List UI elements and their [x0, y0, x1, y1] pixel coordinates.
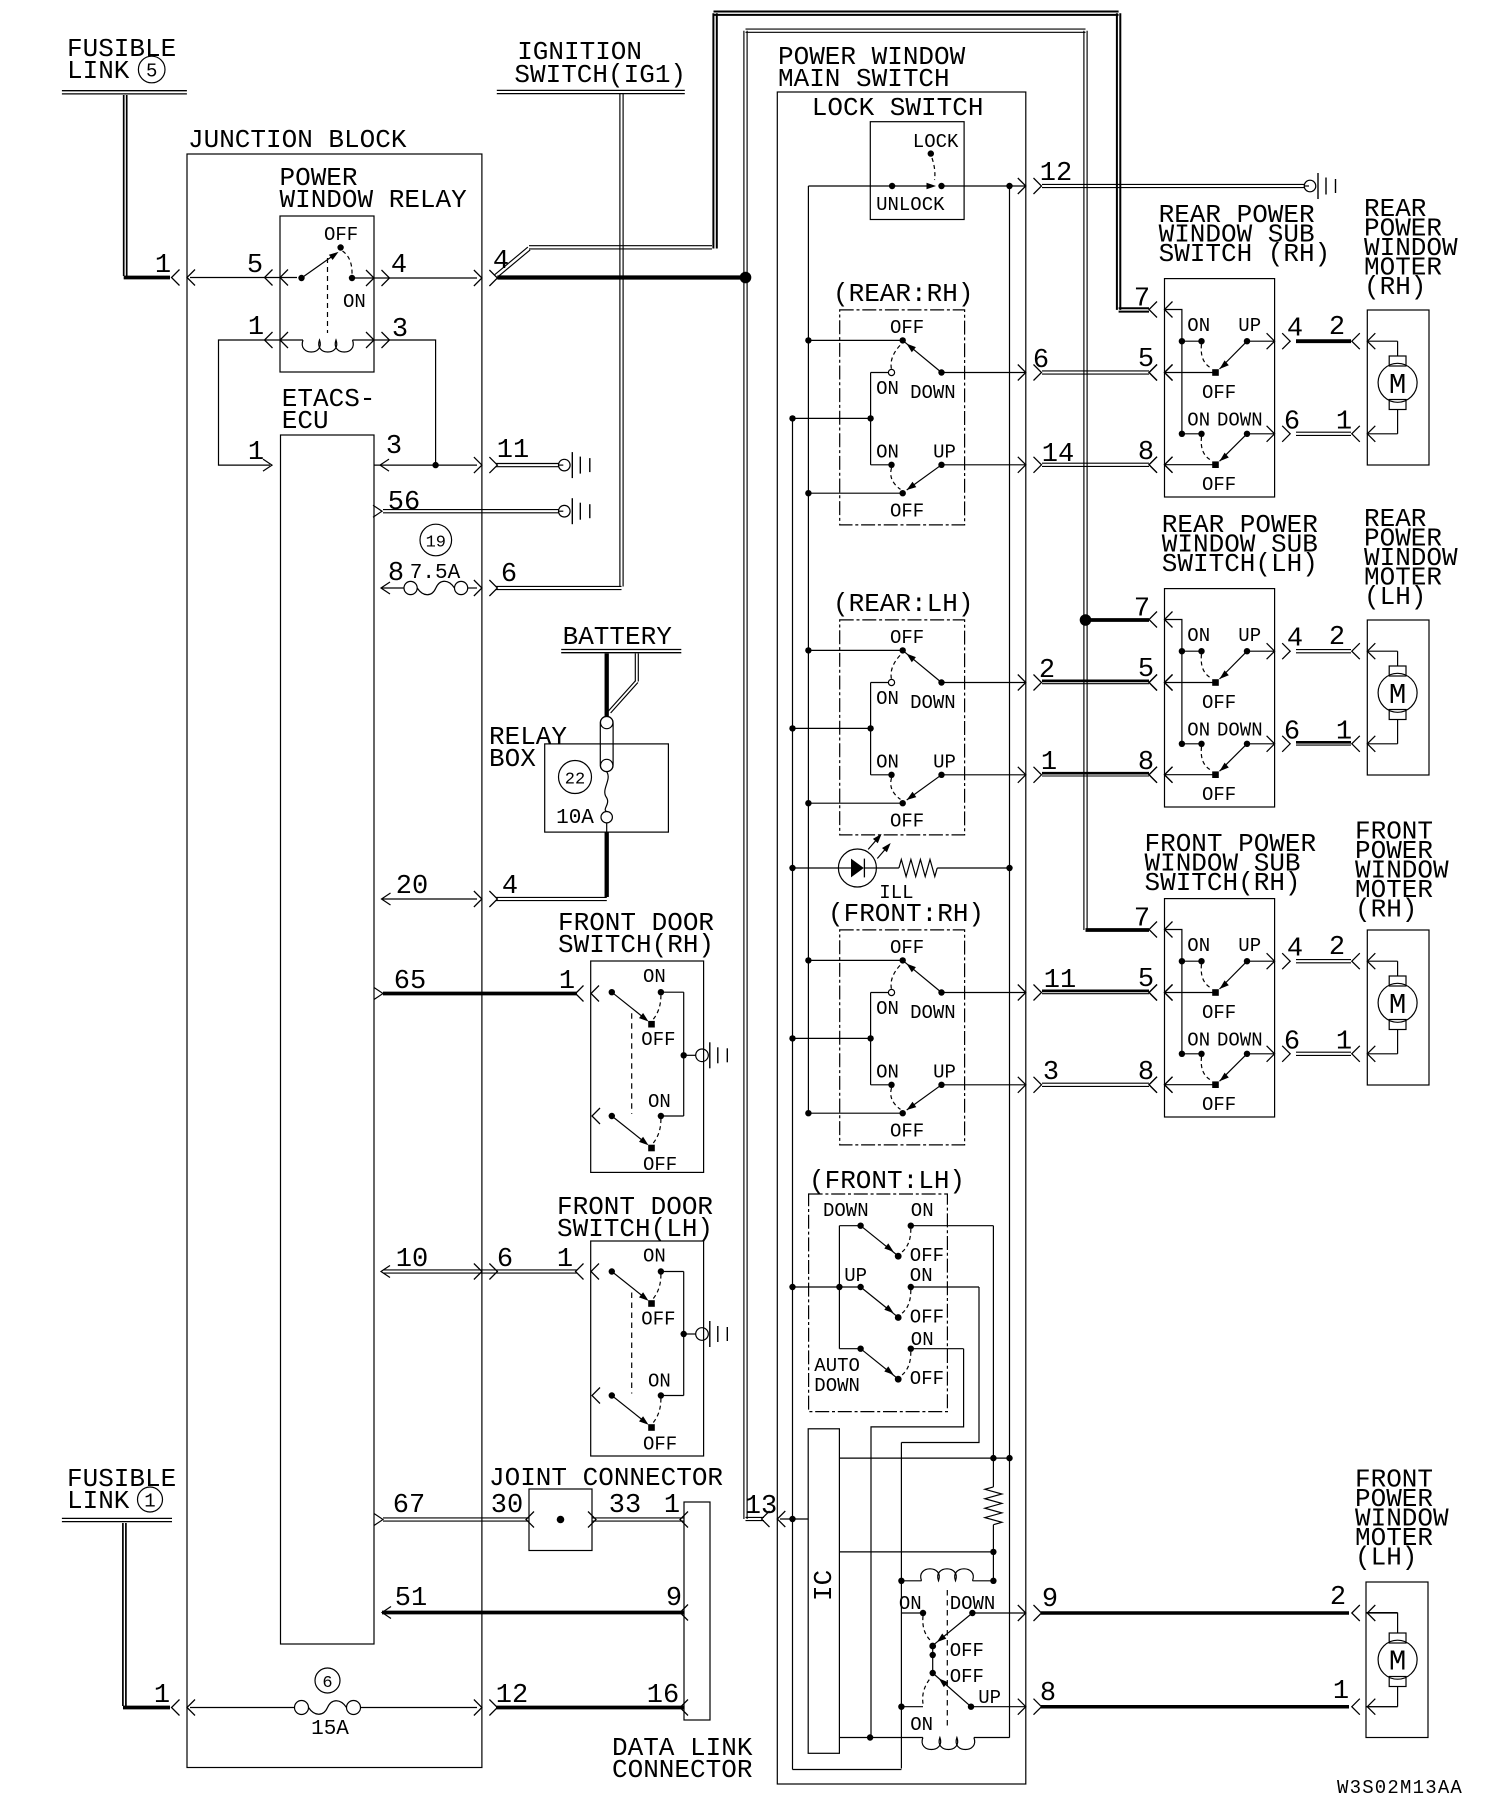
wire fusible link 5 drop [124, 95, 170, 278]
svg-text:ON: ON [1187, 625, 1210, 647]
fusible link 5 terminal bar [62, 91, 187, 94]
wire JB pin12 to DLC pin16 [496, 1681, 688, 1716]
relay K1 contact [298, 224, 366, 333]
wire sub FRT pin4 to motor pin2 [1296, 960, 1351, 963]
svg-text:ON: ON [876, 1061, 899, 1083]
svg-text:DOWN: DOWN [1217, 1029, 1263, 1051]
svg-text:(REAR:LH): (REAR:LH) [833, 589, 973, 619]
svg-text:DOWN: DOWN [910, 1002, 956, 1024]
node pin2 [1018, 656, 1055, 691]
svg-text:1: 1 [154, 1681, 170, 1711]
wire front-lh down contact to resistor [992, 1226, 994, 1458]
svg-text:OFF: OFF [641, 1029, 675, 1051]
svg-text:LOCK SWITCH: LOCK SWITCH [812, 93, 984, 123]
svg-text:UP: UP [933, 1061, 956, 1083]
svg-text:15A: 15A [311, 1718, 349, 1741]
svg-text:DOWN: DOWN [1217, 719, 1263, 741]
svg-text:DOWN: DOWN [1217, 409, 1263, 431]
svg-text:67: 67 [393, 1491, 425, 1521]
svg-text:UP: UP [933, 441, 956, 463]
wire ETACS pin51 to DLC pin9 [382, 1584, 688, 1621]
wire front-lh auto contact down [871, 1349, 964, 1738]
wire ETACS pin3 to JB pin11 [374, 432, 529, 473]
battery terminal bar [561, 650, 681, 653]
svg-text:ECU: ECU [282, 406, 329, 436]
svg-text:ON: ON [648, 1091, 671, 1113]
svg-text:ON: ON [648, 1371, 671, 1393]
rail C lock rail [1009, 186, 1011, 1738]
relay box [545, 744, 669, 832]
svg-text:ON: ON [911, 1200, 934, 1222]
node pin1 main [1018, 748, 1057, 783]
svg-text:UP: UP [933, 751, 956, 773]
wire sub FRT pin6 to motor pin1 [1296, 1052, 1351, 1055]
wire fusible link 1 drop [123, 1523, 170, 1708]
svg-text:DOWN: DOWN [814, 1375, 860, 1397]
wire ETACS pin20 row [382, 872, 519, 907]
power window main switch box [777, 92, 1026, 1784]
wire pin2 to sub pin5 LH [1042, 655, 1173, 691]
svg-text:OFF: OFF [643, 1434, 677, 1456]
svg-text:1: 1 [559, 967, 575, 997]
wire relay coil pin1 to ETACS pin1 [219, 340, 286, 471]
fuse 6 15A [190, 1668, 497, 1741]
svg-text:ON: ON [911, 1329, 934, 1351]
front door switch RH label [558, 908, 714, 960]
rear power window sub switch LH label [1162, 510, 1318, 579]
fusible link symbol battery [600, 716, 613, 771]
wire lock switch row to pin12 [808, 183, 1025, 189]
svg-text:22: 22 [565, 771, 585, 790]
joint connector label [489, 1463, 723, 1493]
svg-text:6: 6 [1284, 1027, 1300, 1057]
front door switch LH box [591, 1241, 704, 1456]
svg-text:M: M [1389, 1646, 1406, 1679]
ground G2 pin56 [558, 498, 590, 524]
svg-text:M: M [1389, 989, 1406, 1022]
rear power window sub switch RH [1134, 279, 1375, 497]
front power window sub switch RH label [1145, 829, 1317, 898]
svg-text:MAIN SWITCH: MAIN SWITCH [778, 64, 950, 94]
svg-text:30: 30 [491, 1491, 523, 1521]
svg-text:OFF: OFF [324, 224, 358, 246]
junction node A [740, 272, 750, 282]
svg-text:56: 56 [388, 488, 420, 518]
svg-text:UP: UP [844, 1265, 867, 1287]
wire coil rail down [898, 1443, 904, 1769]
svg-text:1: 1 [155, 251, 171, 281]
svg-text:7.5A: 7.5A [410, 562, 461, 585]
svg-text:UP: UP [1238, 625, 1261, 647]
svg-text:ON: ON [1187, 719, 1210, 741]
wire ETACS pin10 to front door switch LH [381, 1245, 599, 1280]
svg-text:DOWN: DOWN [910, 692, 956, 714]
reversing switch up pole [899, 1593, 995, 1676]
ground G3 front door RH [696, 1042, 728, 1068]
svg-text:CONNECTOR: CONNECTOR [612, 1755, 752, 1785]
front power window moter RH label [1355, 817, 1449, 925]
svg-text:OFF: OFF [890, 317, 924, 339]
svg-text:6: 6 [1284, 407, 1300, 437]
wire pin9 row [972, 1583, 1397, 1621]
svg-text:ON: ON [899, 1593, 922, 1615]
node pin1 junction block left [155, 251, 195, 286]
ground G1 pin11 [558, 452, 590, 478]
svg-text:BATTERY: BATTERY [563, 622, 673, 652]
ignition switch terminal bar [497, 90, 685, 93]
svg-text:1: 1 [557, 1245, 573, 1275]
wire pin1 to sub pin8 LH [1042, 748, 1173, 783]
svg-text:OFF: OFF [890, 627, 924, 649]
relay K1 box [280, 216, 374, 372]
motor M3 front RH [1367, 930, 1429, 1085]
joint connector box [529, 1489, 592, 1551]
svg-text:4: 4 [493, 247, 509, 277]
wire pin6 to sub pin5 [1042, 345, 1173, 381]
svg-text:OFF: OFF [890, 937, 924, 959]
wire junction A up and right run [744, 29, 1087, 617]
rail B supply rail [807, 186, 809, 1113]
svg-text:ON: ON [910, 1265, 933, 1287]
svg-text:ON: ON [643, 966, 666, 988]
svg-text:1: 1 [248, 313, 264, 343]
fusible link 5 label [67, 34, 176, 86]
svg-text:WINDOW RELAY: WINDOW RELAY [280, 185, 468, 215]
wire ETACS pin56 to ground [373, 488, 559, 518]
drawing number [1337, 1777, 1463, 1799]
svg-text:8: 8 [1138, 748, 1154, 778]
svg-text:(LH): (LH) [1355, 1543, 1417, 1573]
svg-text:8: 8 [1040, 1679, 1056, 1709]
svg-text:OFF: OFF [910, 1368, 944, 1390]
svg-text:10: 10 [396, 1245, 428, 1275]
wire sub RH pin4 to motor pin2 [1296, 339, 1351, 343]
svg-text:OFF: OFF [1202, 474, 1236, 496]
svg-text:SWITCH(LH): SWITCH(LH) [557, 1214, 713, 1244]
power window main switch label [778, 42, 966, 94]
svg-text:ON: ON [910, 1714, 933, 1736]
svg-text:ON: ON [876, 441, 899, 463]
svg-text:W3S02M13AA: W3S02M13AA [1337, 1777, 1463, 1799]
wire pin8 row [971, 1677, 1398, 1715]
svg-text:51: 51 [395, 1584, 427, 1614]
svg-text:6: 6 [322, 1674, 332, 1693]
svg-text:8: 8 [1138, 1058, 1154, 1088]
wire junction B down to front RH sub pin7 [1084, 623, 1149, 930]
illumination LED ILL [789, 834, 1012, 904]
svg-text:7: 7 [1134, 595, 1150, 625]
svg-text:SWITCH(RH): SWITCH(RH) [558, 930, 714, 960]
svg-text:OFF: OFF [643, 1154, 677, 1176]
motor M4 front LH box [1366, 1582, 1428, 1738]
svg-text:2: 2 [1329, 933, 1345, 963]
svg-text:SWITCH (RH): SWITCH (RH) [1159, 239, 1331, 269]
lock switch label [812, 93, 984, 123]
svg-text:DOWN: DOWN [910, 382, 956, 404]
wire ignition drop [620, 94, 623, 587]
svg-text:2: 2 [1329, 313, 1345, 343]
svg-text:OFF: OFF [950, 1666, 984, 1688]
wire ETACS pin67 to joint connector [374, 1491, 534, 1528]
svg-text:33: 33 [609, 1491, 641, 1521]
svg-text:ON: ON [1187, 935, 1210, 957]
svg-text:4: 4 [1287, 625, 1303, 655]
svg-text:BOX: BOX [489, 744, 536, 774]
wire sub RH pin6 to motor pin1 [1296, 432, 1351, 435]
svg-text:JOINT CONNECTOR: JOINT CONNECTOR [489, 1463, 723, 1493]
wire fuse19 to ignition drop [496, 586, 622, 589]
wire relay pin4 to JB edge [352, 251, 497, 286]
node pin12 [1018, 159, 1072, 194]
relay coil down L2 [839, 1734, 1009, 1749]
svg-text:OFF: OFF [1202, 1002, 1236, 1024]
svg-text:4: 4 [1287, 935, 1303, 965]
svg-text:OFF: OFF [950, 1640, 984, 1662]
wire sub LH pin4 to motor pin2 [1296, 650, 1351, 653]
svg-text:OFF: OFF [890, 1120, 924, 1142]
svg-text:ON: ON [1187, 409, 1210, 431]
svg-text:OFF: OFF [641, 1309, 675, 1331]
ETACS-ECU box [281, 435, 375, 1644]
svg-text:10A: 10A [556, 807, 594, 830]
svg-text:11: 11 [497, 436, 529, 466]
fuse 19 7.5A [381, 524, 517, 596]
reversing switch down pole [901, 1666, 1001, 1736]
lock switch contacts [876, 131, 959, 216]
svg-text:OFF: OFF [890, 810, 924, 832]
lock switch box [870, 122, 964, 220]
node pin14 [1018, 440, 1074, 473]
node pin11 [1018, 966, 1076, 1001]
wire IC row 1552 [839, 1549, 996, 1555]
svg-text:ILL: ILL [879, 882, 913, 904]
svg-text:4: 4 [502, 872, 518, 902]
front power window sub switch RH [1134, 899, 1375, 1117]
relay K1 coil [248, 313, 408, 352]
svg-text:1: 1 [1336, 407, 1352, 437]
svg-text:1: 1 [248, 438, 264, 468]
svg-text:AUTO: AUTO [814, 1355, 860, 1377]
wire junction B to rear LH sub pin7 [1089, 618, 1149, 622]
wire ETACS pin65 to front door switch RH [374, 967, 599, 1002]
svg-text:1: 1 [664, 1491, 680, 1521]
svg-text:6: 6 [1033, 346, 1049, 376]
svg-text:1: 1 [1333, 1677, 1349, 1707]
junction block box [187, 154, 482, 1768]
svg-text:ON: ON [876, 688, 899, 710]
svg-text:DOWN: DOWN [823, 1200, 869, 1222]
svg-text:LINK: LINK [67, 56, 130, 86]
ignition switch label [514, 37, 686, 90]
svg-text:OFF: OFF [1202, 382, 1236, 404]
wire relay coil pin3 down [369, 340, 439, 468]
svg-text:UP: UP [1238, 315, 1261, 337]
svg-text:6: 6 [497, 1245, 513, 1275]
wire JB left to relay pin5 [190, 251, 297, 286]
svg-text:(FRONT:LH): (FRONT:LH) [809, 1166, 965, 1196]
wire pin13 row [745, 1492, 808, 1527]
svg-text:OFF: OFF [910, 1306, 944, 1328]
svg-text:9: 9 [666, 1584, 682, 1614]
node pin6 [1018, 346, 1049, 381]
wire JB pin4 bold to junction [497, 275, 745, 279]
resistor R1 [985, 1458, 1002, 1581]
fusible link 1 terminal bar [62, 1518, 172, 1521]
svg-text:65: 65 [394, 967, 426, 997]
wire battery second drop [608, 654, 638, 714]
wire pin11 to sub pin5 FRT [1042, 965, 1173, 1001]
svg-text:(RH): (RH) [1364, 272, 1426, 302]
svg-text:8: 8 [1138, 438, 1154, 468]
power window relay label [280, 163, 468, 215]
main switch section FRONT LH [789, 1166, 993, 1412]
svg-text:OFF: OFF [890, 500, 924, 522]
svg-text:SWITCH(RH): SWITCH(RH) [1145, 868, 1301, 898]
svg-text:UNLOCK: UNLOCK [876, 194, 945, 216]
junction block label [188, 125, 407, 155]
svg-text:M: M [1389, 369, 1406, 402]
svg-text:(REAR:RH): (REAR:RH) [833, 279, 973, 309]
wire relay box out [496, 823, 607, 901]
svg-text:2: 2 [1330, 1583, 1346, 1613]
fuse 22 10A [556, 761, 612, 831]
junction node B [1080, 615, 1090, 625]
node pin3 [1018, 1058, 1059, 1093]
rear power window moter RH label [1364, 194, 1458, 302]
ETACS-ECU label [282, 384, 376, 436]
svg-text:3: 3 [386, 432, 402, 462]
front door switch LH contacts [592, 1246, 696, 1456]
wire sub LH pin6 to motor pin1 [1296, 742, 1351, 745]
main switch section REAR RH [789, 279, 1026, 525]
relay coil up L1 [898, 1569, 996, 1584]
main switch section FRONT RH [789, 899, 1026, 1145]
fusible link 1 label [67, 1464, 176, 1516]
motor M2 rear LH [1367, 620, 1429, 775]
rear power window sub switch LH [1134, 589, 1375, 807]
rail A ground rail [793, 418, 902, 1769]
motor M1 rear RH [1367, 310, 1429, 465]
svg-text:LOCK: LOCK [913, 131, 959, 153]
svg-text:ON: ON [876, 751, 899, 773]
svg-text:20: 20 [396, 872, 428, 902]
svg-text:9: 9 [1042, 1585, 1058, 1615]
svg-text:UP: UP [978, 1687, 1001, 1709]
wire junction A down to pin13 [744, 280, 764, 1521]
wire front-lh up contact down [901, 1287, 979, 1443]
svg-text:(RH): (RH) [1355, 895, 1417, 925]
wire pin12 to ground [1042, 184, 1304, 187]
svg-text:IC: IC [809, 1570, 839, 1601]
svg-text:ON: ON [876, 998, 899, 1020]
front door switch LH label [557, 1192, 713, 1244]
wire pin14 to sub pin8 [1042, 438, 1173, 473]
data link connector label [612, 1733, 753, 1785]
svg-text:7: 7 [1134, 905, 1150, 935]
data link connector box [684, 1502, 710, 1720]
svg-text:ON: ON [343, 291, 366, 313]
svg-text:SWITCH(IG1): SWITCH(IG1) [514, 60, 686, 90]
svg-text:M: M [1389, 679, 1406, 712]
svg-text:(LH): (LH) [1364, 582, 1426, 612]
svg-text:OFF: OFF [1202, 784, 1236, 806]
svg-text:OFF: OFF [1202, 1094, 1236, 1116]
rear power window sub switch RH label [1159, 200, 1331, 269]
node pin1 JB bottom [154, 1681, 195, 1716]
relay box label [489, 722, 567, 774]
svg-text:16: 16 [647, 1681, 679, 1711]
svg-text:LINK: LINK [67, 1486, 130, 1516]
wire IC row 1458 [839, 1455, 1012, 1461]
svg-text:7: 7 [1134, 285, 1150, 315]
IC box [808, 1429, 839, 1754]
ground G5 pin12 [1304, 173, 1336, 199]
svg-text:5: 5 [247, 251, 263, 281]
wire JB pin4 diagonal feeder [493, 246, 712, 278]
svg-text:OFF: OFF [910, 1245, 944, 1267]
svg-text:UP: UP [1238, 935, 1261, 957]
svg-text:ON: ON [643, 1246, 666, 1268]
front door switch RH box [591, 961, 704, 1172]
front door switch RH contacts [592, 966, 696, 1176]
wire pin3 to sub pin8 FRT [1042, 1058, 1173, 1093]
svg-text:ON: ON [1187, 1029, 1210, 1051]
wire feeder top run to rear RH sub [713, 12, 1149, 312]
svg-text:ON: ON [876, 378, 899, 400]
main switch section REAR LH [789, 589, 1026, 835]
svg-text:8: 8 [388, 559, 404, 589]
wire battery drop bold [605, 654, 609, 717]
svg-text:1: 1 [1336, 1027, 1352, 1057]
ground G4 front door LH [696, 1321, 728, 1347]
rear power window moter LH label [1364, 504, 1458, 612]
svg-text:SWITCH(LH): SWITCH(LH) [1162, 549, 1318, 579]
svg-text:2: 2 [1329, 623, 1345, 653]
wire pin11 to ground [496, 464, 559, 467]
svg-text:14: 14 [1042, 440, 1074, 470]
link line reversing switch [946, 1590, 948, 1729]
svg-text:13: 13 [745, 1492, 777, 1522]
svg-text:19: 19 [426, 534, 446, 553]
svg-text:1: 1 [144, 1491, 155, 1513]
svg-text:5: 5 [146, 61, 157, 83]
svg-text:OFF: OFF [1202, 692, 1236, 714]
svg-text:12: 12 [496, 1681, 528, 1711]
svg-text:6: 6 [501, 560, 517, 590]
svg-text:JUNCTION BLOCK: JUNCTION BLOCK [188, 125, 407, 155]
front power window moter LH label [1355, 1465, 1449, 1573]
battery label [563, 622, 673, 652]
svg-text:4: 4 [391, 251, 407, 281]
svg-text:ON: ON [1187, 315, 1210, 337]
wire joint connector to DLC pin1 [588, 1491, 688, 1528]
